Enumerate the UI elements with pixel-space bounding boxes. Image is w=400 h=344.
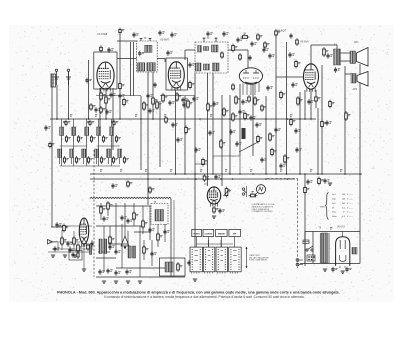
- capacitor C43: [163, 229, 169, 235]
- capacitor C83: [111, 183, 117, 189]
- wire v1 under bus: [96, 95, 141, 97]
- capacitor C16: [206, 31, 212, 37]
- pickup PU: [254, 185, 266, 196]
- capacitor C47: [106, 268, 112, 274]
- coil L12: [118, 149, 129, 164]
- mains plug: [296, 259, 303, 266]
- tube V3a: [79, 218, 88, 247]
- transformer T5 box: [151, 204, 168, 225]
- resistor R43: [213, 206, 219, 214]
- resistor R44: [249, 192, 258, 197]
- capacitor C62: [294, 128, 300, 134]
- caption line 2: [104, 295, 305, 299]
- svg-text:V ——: V ——: [347, 207, 353, 209]
- variable capacitor CV: [90, 103, 101, 113]
- wire v5 plate riser: [311, 45, 337, 64]
- wire ot primary: [321, 65, 323, 174]
- coil L15 filter: [352, 248, 357, 255]
- resistor R70: [127, 180, 133, 188]
- caption line 1: [57, 290, 340, 294]
- capacitor C57: [331, 267, 337, 273]
- resistor R7: [176, 92, 182, 102]
- svg-text:V ——: V ——: [347, 203, 353, 205]
- capacitor C64: [260, 157, 266, 163]
- resistor R12: [235, 95, 241, 105]
- capacitor C49: [125, 269, 131, 275]
- coil L10: [95, 149, 106, 164]
- capacitor C52: [68, 247, 74, 253]
- ground G10: [212, 216, 216, 218]
- capacitor C5: [138, 51, 144, 57]
- wire band column 1: [61, 119, 63, 166]
- capacitor C40: [120, 215, 126, 221]
- resistor R20: [207, 102, 213, 112]
- capacitor C73: [107, 47, 113, 53]
- ground G1: [328, 183, 332, 185]
- capacitor C84: [289, 33, 292, 39]
- input arrow J1: [48, 240, 59, 245]
- bus value labels 2: [100, 170, 342, 171]
- ground G2: [102, 281, 106, 283]
- capacitor C2: [85, 78, 91, 84]
- wire coupling drop 3: [286, 42, 288, 174]
- label V6: [337, 227, 345, 229]
- scan noise texture: [11, 25, 392, 300]
- button S3 CORTE: [203, 229, 214, 236]
- wire if drop 4: [159, 101, 161, 167]
- wire t2 to v2: [157, 59, 165, 63]
- ground G9: [73, 255, 77, 257]
- resistor R66: [239, 53, 242, 61]
- capacitor C82: [238, 109, 244, 115]
- resistor R21: [223, 107, 229, 117]
- button S2 FONO: [192, 229, 202, 236]
- capacitor C58: [345, 267, 351, 273]
- svg-text:AP2: AP2: [353, 88, 358, 91]
- wire AVC bus: [50, 118, 316, 120]
- shield V2: [166, 58, 188, 90]
- wire v1 plate link: [117, 41, 137, 96]
- tone control TC: [121, 231, 129, 249]
- coil T3 secondary c: [213, 63, 220, 71]
- label T4: [334, 44, 337, 47]
- tube V5: [304, 64, 319, 92]
- capacitor C63: [325, 120, 331, 126]
- capacitor C9: [158, 30, 164, 36]
- label T5: [154, 202, 157, 204]
- capacitor C18: [236, 37, 242, 43]
- capacitor C29: [212, 101, 218, 107]
- capacitor C55: [214, 174, 220, 180]
- coil T3 secondary a: [196, 63, 202, 71]
- capacitor C27: [181, 97, 187, 103]
- wire v5 pin 2: [310, 89, 312, 119]
- trimmer C6: [140, 38, 143, 41]
- voltage table: [332, 194, 353, 218]
- resistor R2: [105, 95, 111, 105]
- capacitor C21: [241, 99, 247, 105]
- resistor R42: [203, 174, 209, 182]
- capacitor C69: [176, 137, 182, 143]
- switch wafer SW2: [203, 247, 215, 274]
- svg-text:V5-6V6: V5-6V6: [300, 40, 309, 44]
- svg-text:V ——: V ——: [347, 212, 353, 214]
- resistor R18: [156, 100, 162, 110]
- capacitor C39: [102, 216, 108, 222]
- svg-text:CORTE: CORTE: [204, 234, 212, 236]
- capacitor C50: [66, 241, 72, 247]
- ground G12: [341, 271, 345, 273]
- capacitor C30: [208, 130, 214, 136]
- capacitor C54: [55, 222, 61, 228]
- wire ps top: [305, 232, 360, 265]
- coil T2 secondary a: [138, 63, 145, 71]
- svg-text:V ——: V ——: [347, 194, 353, 196]
- wire band tie 1: [60, 145, 87, 147]
- capacitor C8: [132, 32, 138, 38]
- ground G3: [114, 281, 118, 283]
- ground G7: [51, 255, 55, 257]
- resistor R37: [61, 236, 67, 246]
- svg-text:PHONOLA - Mod. 660. Apparecchi: PHONOLA - Mod. 660. Apparecchio a modula…: [57, 290, 340, 294]
- capacitor C74: [166, 50, 172, 56]
- resistor R51: [257, 135, 263, 144]
- label V1: [97, 32, 108, 36]
- wire det h link: [195, 163, 208, 165]
- svg-text:V ——: V ——: [347, 216, 353, 218]
- wire af drop 3: [221, 95, 223, 186]
- ground G11: [323, 269, 327, 271]
- capacitor C65: [279, 163, 285, 169]
- coil L3: [72, 127, 83, 143]
- resistor R54: [329, 100, 335, 109]
- resistor R68: [248, 95, 251, 103]
- button S5 MF: [229, 229, 241, 236]
- capacitor C36 padder: [44, 125, 50, 131]
- switch wafer SW4: [229, 247, 242, 274]
- wire v2 to t3: [185, 50, 195, 60]
- svg-text:V6-5Y3: V6-5Y3: [337, 227, 345, 229]
- capacitor C80: [248, 55, 251, 61]
- svg-text:MEDIE: MEDIE: [218, 234, 225, 236]
- coil T5: [155, 210, 164, 222]
- svg-text:V ——: V ——: [347, 199, 353, 201]
- capacitor C41: [126, 218, 132, 224]
- wire v4 diode drop: [252, 84, 254, 156]
- trimmer C71: [89, 120, 94, 127]
- svg-text:POSIZ. ONDE MEDIE: POSIZ. ONDE MEDIE: [249, 260, 268, 262]
- tube V2: [168, 62, 184, 91]
- motor M1: [90, 239, 115, 255]
- coil T3 primary c: [212, 45, 219, 52]
- coil T2 primary: [145, 45, 152, 52]
- capacitor C34: [334, 67, 340, 73]
- wire switch arm: [239, 142, 258, 152]
- wire button FONO stem: [196, 237, 198, 248]
- switch link wire: [197, 240, 233, 247]
- resistor R22: [220, 139, 226, 149]
- resistor R61: [221, 51, 224, 59]
- svg-text:AP1: AP1: [354, 41, 359, 44]
- capacitor C24: [295, 147, 301, 153]
- capacitor C85: [187, 260, 190, 266]
- capacitor C77: [266, 85, 272, 91]
- resistor R27: [318, 177, 324, 186]
- svg-text:Vk: Vk: [332, 207, 334, 209]
- resistor R60: [100, 45, 103, 52]
- resistor R24: [315, 95, 321, 103]
- wire avc feed: [88, 60, 90, 119]
- coil T3 secondary b: [204, 64, 210, 70]
- button S4 MEDIE: [216, 229, 228, 236]
- wire button MEDIE stem: [220, 237, 222, 248]
- capacitor C22 electrolytic: [242, 128, 246, 139]
- resistor R59: [185, 126, 191, 135]
- wire tone mesh v: [101, 203, 165, 277]
- svg-text:V1-6TE8: V1-6TE8: [97, 32, 108, 36]
- label V2: [160, 37, 170, 41]
- fuse F1: [303, 240, 309, 244]
- resistor R72: [296, 38, 299, 46]
- wire af drop 1: [207, 73, 209, 186]
- wire band tie 2: [97, 145, 120, 147]
- coil T3 primary a: [198, 46, 202, 53]
- resistor R9: [241, 33, 250, 38]
- capacitor C44: [114, 249, 120, 255]
- capacitor C33: [326, 53, 332, 59]
- ground G4: [126, 281, 130, 283]
- coil L14: [165, 262, 173, 272]
- wire v5 pin 1: [304, 90, 306, 119]
- wire rf line: [119, 33, 121, 119]
- wire HT bus: [90, 173, 362, 175]
- shield left dashed edge: [93, 150, 95, 277]
- wire band column 5: [111, 119, 113, 166]
- capacitor C53: [90, 241, 93, 247]
- coil L13: [128, 246, 136, 258]
- transformer T2 can: [137, 37, 158, 72]
- resistor R13: [232, 112, 238, 122]
- wire left antenna down-lead: [51, 74, 67, 227]
- resistor R11: [275, 29, 281, 37]
- capacitor C11: [146, 93, 152, 99]
- capacitor C12: [168, 100, 174, 106]
- resistor R56: [304, 186, 310, 195]
- coil L11: [107, 149, 118, 164]
- wire output grid drop: [299, 92, 301, 174]
- svg-text:Valim: Valim: [332, 216, 337, 218]
- trimmer C70: [65, 120, 70, 127]
- resistor R40: [87, 243, 90, 251]
- capacitor C3: [109, 92, 115, 98]
- wire mixer drop 3: [112, 88, 114, 150]
- wire v5 pin 3: [315, 90, 317, 108]
- resistor R4: [123, 98, 129, 107]
- label T6: [319, 228, 322, 230]
- table brace: [326, 193, 329, 220]
- label tensioni: [320, 207, 326, 209]
- ground G6: [193, 279, 197, 281]
- resistor R34: [109, 235, 115, 245]
- capacitor C25: [274, 127, 280, 133]
- resistor R23: [297, 96, 303, 106]
- trimmer C15: [215, 38, 218, 43]
- wire tone mesh h: [96, 206, 171, 268]
- svg-text:Vosc: Vosc: [332, 212, 336, 214]
- wire t4 to speaker: [341, 53, 351, 61]
- resistor R35: [143, 245, 149, 255]
- svg-text:Il comando di sintonizzazione: Il comando di sintonizzazione è a tastie…: [104, 295, 305, 299]
- capacitor C32: [307, 99, 313, 105]
- transformer T3 can: [195, 37, 228, 73]
- label V3: [204, 184, 208, 186]
- wire v4 anode drop: [239, 84, 241, 156]
- svg-text:V4-6Q7: V4-6Q7: [277, 29, 286, 33]
- svg-text:FONO: FONO: [193, 234, 200, 236]
- junction dots HT bus: [175, 173, 361, 175]
- coil L6: [110, 127, 121, 143]
- wire band column 4: [98, 119, 100, 166]
- resistor R29: [100, 205, 106, 215]
- voltage selector VS: [307, 255, 315, 261]
- capacitor C45: [150, 251, 156, 257]
- resistor R64: [280, 91, 286, 100]
- wire band column 2: [73, 119, 75, 166]
- resistor R10: [257, 33, 263, 41]
- wire voicecoil 1: [344, 66, 346, 174]
- wire speaker 2 feed: [345, 73, 351, 75]
- capacitor C26: [148, 108, 154, 114]
- wire v4 to v5 grid: [276, 76, 304, 78]
- label AP1: [354, 41, 359, 44]
- output box B2: [160, 258, 186, 276]
- junction dots heater bus: [147, 178, 288, 180]
- svg-text:V2-6M7: V2-6M7: [160, 37, 170, 41]
- capacitor C10: [170, 32, 176, 38]
- coil L5: [97, 127, 108, 143]
- resistor R33: [157, 232, 163, 242]
- wire af drop 4: [229, 95, 231, 174]
- wire mixer drop 2: [105, 88, 107, 120]
- note text phono: [252, 203, 276, 213]
- coil L1 antenna: [51, 74, 56, 87]
- ground G5: [138, 281, 142, 283]
- label AP2: [353, 88, 358, 91]
- speaker AP1: [350, 48, 368, 67]
- transformer T4: [334, 49, 341, 65]
- wire if drop 3: [152, 72, 154, 119]
- resistor R55: [271, 148, 277, 157]
- capacitor C31: [229, 129, 235, 135]
- resistor R26: [345, 111, 351, 121]
- coil L7: [58, 149, 69, 164]
- resistor R41: [63, 224, 69, 233]
- wire ant2 drop: [68, 72, 70, 119]
- label V4: [277, 29, 286, 33]
- resistor R5: [152, 96, 158, 106]
- dashed boundary phono: [267, 179, 298, 268]
- coil L8: [70, 149, 81, 164]
- potentiometer P1: [224, 187, 232, 198]
- wire af drop 2: [212, 73, 214, 174]
- capacitor C81: [268, 53, 274, 59]
- capacitor C68: [171, 122, 177, 128]
- resistor R3: [119, 82, 125, 91]
- note text switch: [249, 254, 269, 262]
- ground G13: [82, 269, 86, 271]
- resistor R25: [323, 47, 329, 57]
- rectifier V6: [336, 232, 350, 269]
- coil L2: [60, 127, 71, 143]
- coil L9: [82, 149, 93, 164]
- switch S1: [242, 186, 246, 197]
- resistor R28: [100, 106, 106, 114]
- ground G8: [63, 255, 67, 257]
- band column labels: [63, 121, 113, 122]
- capacitor C78: [291, 82, 297, 88]
- capacitor C20: [262, 47, 268, 53]
- resistor R69: [261, 104, 267, 112]
- trimmer C1: [119, 28, 125, 35]
- wire phono v: [58, 230, 92, 269]
- wire t3 to v4: [228, 50, 248, 68]
- arrow guide: [246, 247, 248, 268]
- coil L4: [85, 127, 96, 143]
- resistor R58: [165, 116, 168, 124]
- switch wafer SW3: [216, 247, 228, 274]
- wire mid h link: [213, 156, 240, 174]
- wire fb line: [317, 108, 319, 174]
- capacitor C67: [194, 147, 200, 153]
- resistor R39: [77, 243, 83, 253]
- antenna A1: [54, 69, 59, 85]
- capacitor C79: [288, 52, 294, 58]
- transformer T6: [320, 228, 332, 263]
- resistor R36: [177, 262, 183, 272]
- wire screen drop: [184, 96, 186, 174]
- wire v2 cathode drop: [175, 90, 177, 175]
- capacitor C60: [249, 115, 255, 121]
- trimmer C7: [149, 38, 152, 41]
- resistor R53: [321, 120, 327, 129]
- capacitor C61: [235, 141, 241, 147]
- resistor R38: [73, 236, 79, 246]
- shield box top zigzag: [90, 197, 171, 198]
- resistor R14: [254, 96, 260, 106]
- resistor R62: [189, 81, 195, 90]
- capacitor C28: [192, 96, 198, 102]
- capacitor C38: [105, 109, 111, 115]
- shield box small: [69, 251, 82, 261]
- label V5: [300, 40, 309, 44]
- switch wafer SW1: [190, 247, 202, 274]
- trimmer C14: [203, 38, 206, 43]
- capacitor C46: [98, 269, 104, 275]
- resistor R31: [133, 211, 139, 221]
- wire v4 pins: [243, 82, 259, 95]
- trimmer C72: [113, 120, 118, 127]
- resistor R15: [284, 154, 290, 164]
- wire voicecoil 2: [359, 64, 361, 232]
- wire if drop 1: [140, 96, 142, 170]
- resistor R30: [107, 201, 113, 211]
- capacitor C48: [114, 270, 120, 276]
- capacitor C35: [323, 178, 329, 184]
- capacitor C51: [53, 246, 59, 252]
- tube V4: [239, 68, 262, 84]
- capacitor C75: [188, 62, 194, 68]
- capacitor C42: [148, 227, 154, 233]
